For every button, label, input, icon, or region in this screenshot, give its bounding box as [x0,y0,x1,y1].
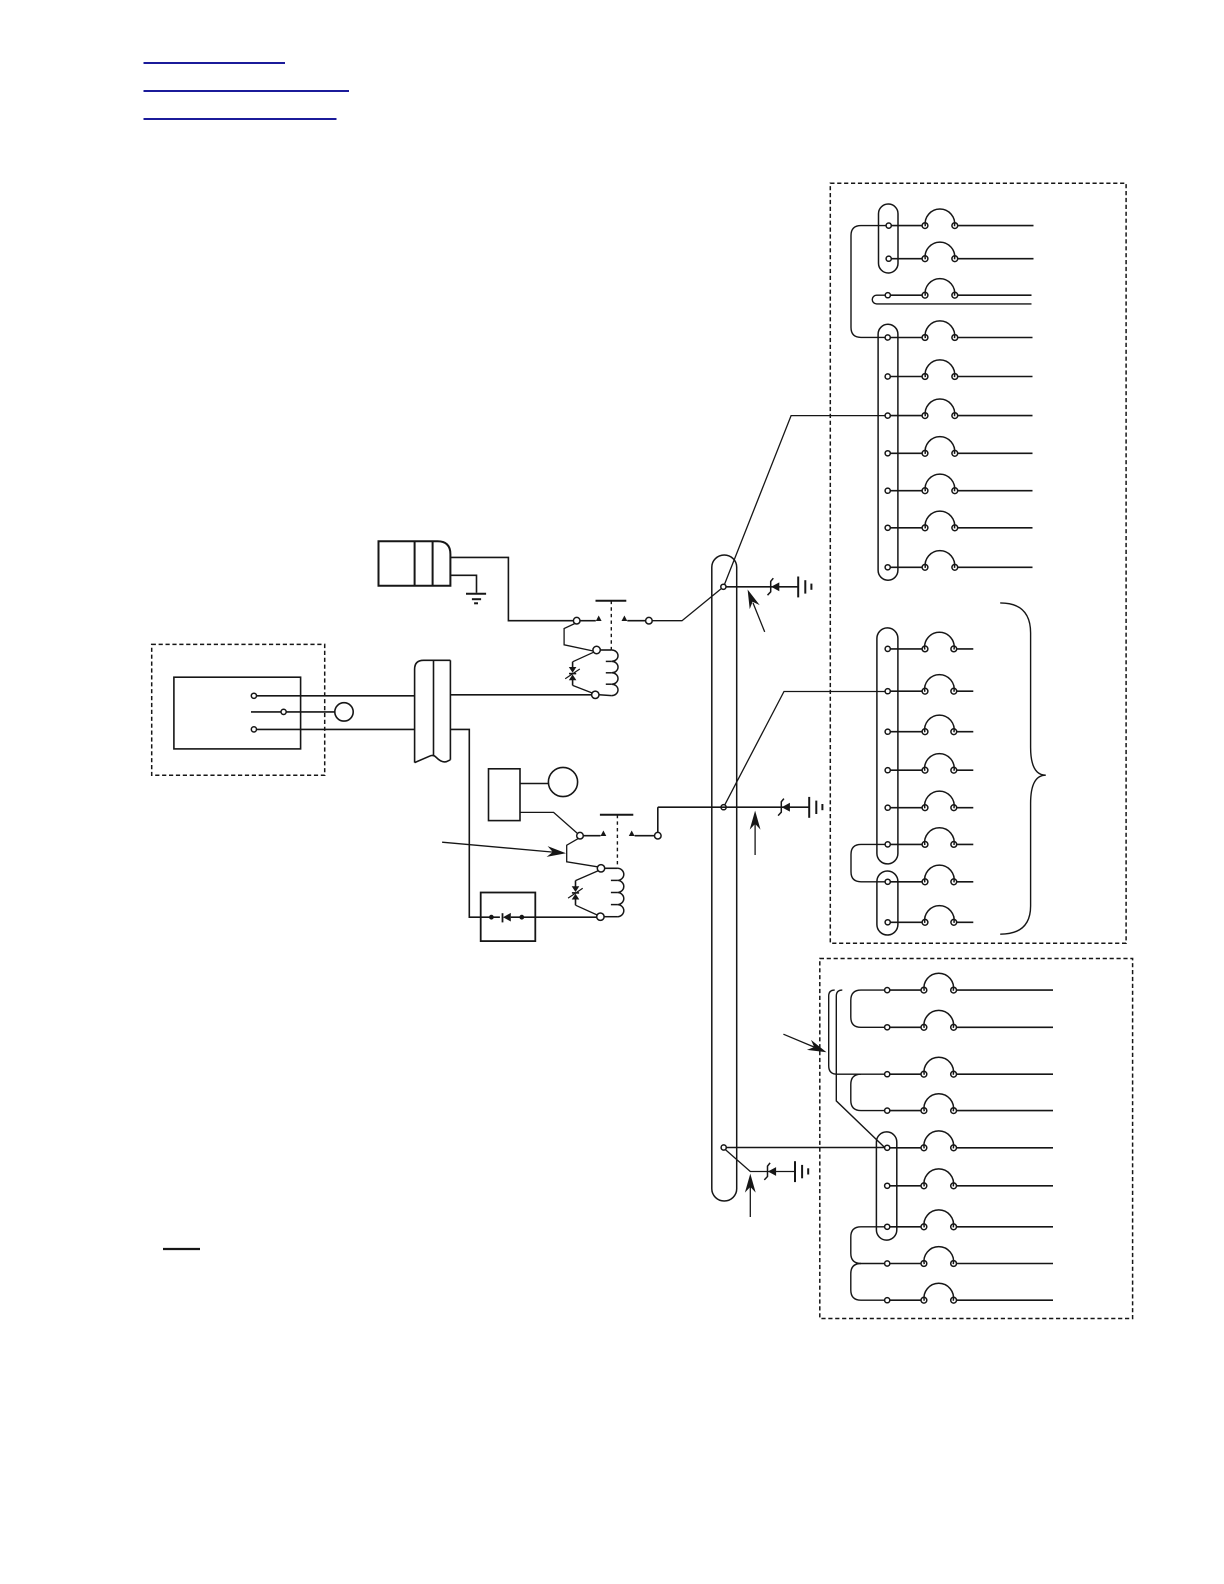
relay K1 contact A2 (right) [622,616,653,625]
jumper panel2 row1 to row2 [851,990,885,1027]
callout arrow (node C) [745,1174,756,1217]
annunciator panel 1 enclosure (dashed) [830,183,1126,943]
lamp row 12 (P3-2) [885,675,973,695]
relay K2 armature link (dashed) [616,815,618,868]
lamp row 14 (P3-4) [885,754,973,774]
wire node C to connector P5 pin 1 [726,1147,884,1149]
lamp row 5 (P2-2) [885,360,1032,380]
lamp row 13 (P3-3) [885,715,973,735]
node A [721,584,726,589]
wire box to relay K2 contact [520,812,577,833]
lamp row 21 (panel 2 row 3) [885,1057,1053,1077]
link underline 2 [144,90,350,92]
wire BT1 positive to relay K1 contact [450,557,573,620]
lamp row 24 (panel 2 row 6) [885,1169,1053,1189]
wire node B to connector P3 pin 2 [725,692,885,805]
callout arrow (relay K2) [442,842,566,857]
diode module CR1 box [481,893,536,942]
relay K2 contact B2 (right) [629,831,661,840]
lamp row 10 (P2-7) [885,551,1032,571]
cable break symbol (wire bundle) [415,660,451,762]
lamp row 20 (panel 2 row 2) [885,1010,1053,1030]
wire box to lamp DS2 [520,783,548,785]
branch wire row1 to connector P5 pin 1 [836,990,885,1148]
relay K2 armature bar [600,814,633,816]
jumper panel2 row3 to row4 [851,1074,885,1110]
wire relay K1 contact A1 to coil [564,624,593,652]
relay K1 armature link (dashed) [610,601,612,650]
relay K1 armature bar [596,600,627,602]
module pin 1 (top) [251,693,414,698]
ground G3 [809,797,822,818]
relay K1 coil L1 [592,646,618,698]
control unit module [174,677,301,749]
lamp row 16 (P3-6) [885,828,973,848]
lamp row 2 (P1-2) [886,242,1033,262]
wire cable break to diode module CR1 [450,729,480,917]
lamp row 7 (P2-4) [885,437,1032,457]
wire node A to connector P2 pin 3 [725,416,885,585]
lamp row 6 (P2-3) [885,399,1032,419]
press-to-test lamp DS2 [548,767,577,796]
lamp row 18 (P4-2) [885,906,973,926]
diode CR4 [764,1163,776,1180]
curly brace (lamp group) [1000,603,1046,934]
wire node B to ground G3 [658,806,809,808]
lamp row 27 (panel 2 row 9) [885,1283,1053,1303]
diode CR1 [481,913,597,923]
battery BT1 [379,541,451,585]
cable bundle (loom) [712,555,737,1201]
wire relay K2 contact B2 to node B [657,807,659,832]
lamp row 11 (P3-1) [885,632,973,652]
callout arrow (node B) [750,811,761,855]
connector P3 [877,628,898,864]
relay K1 contact A1 (left) [573,616,601,625]
module pin 2 (middle) [251,709,335,714]
node C [721,1145,726,1150]
lamp row 3 (loose pin) [872,279,1031,304]
lamp row 25 (panel 2 row 7) [885,1210,1053,1230]
lamp row 17 (P4-1) [885,865,973,885]
callout arrow (node A) [748,590,765,632]
jumper panel2 row8 to row9 [851,1264,885,1301]
wire BT1 negative to ground G1 [450,575,476,593]
lamp row 22 (panel 2 row 4) [885,1094,1053,1114]
lamp row 9 (P2-6) [885,511,1032,531]
dimming control box [489,769,521,821]
node B [721,805,726,810]
relay K2 coil L2 [597,865,624,921]
lamp row 19 (panel 2 row 1) [885,973,1053,993]
link underline 1 [144,62,286,64]
lamp row 26 (panel 2 row 8) [885,1247,1053,1267]
callout arrow (panel 2 wiring) [783,1034,826,1052]
relay K2 contact B1 (left) [577,831,607,840]
branch wire row1 to row3 [829,990,885,1074]
indicator lamp DS1 [335,703,353,721]
wire relay K2 contact B1 to coil [567,839,598,867]
note underline [163,1248,200,1250]
jumper P1-1 to P2-1 [851,226,886,338]
ground G2 [798,577,811,598]
ground G1 [466,594,486,604]
wire node C to ground G4 [725,1150,795,1172]
module pin 3 (bottom) [251,727,414,732]
connector P1 [879,204,899,273]
jumper panel2 row7 to row8 [851,1227,885,1264]
wire node A to ground G2 [726,586,798,588]
jumper P3-6 to P4-1 [851,844,885,881]
link underline 3 [144,118,337,120]
wire relay K1 contact A2 to node A [652,589,721,621]
ground G4 [795,1161,808,1182]
diode CR2 [768,578,780,595]
connector P2 [878,324,898,580]
lamp row 8 (P2-5) [885,474,1032,494]
connector P4 [877,871,898,935]
zener suppressor VR1 [565,652,593,693]
lamp row 15 (P3-5) [885,791,973,811]
lamp row 1 (P1-1) [886,209,1033,229]
annunciator panel 2 enclosure (dashed) [820,959,1133,1319]
lamp row 23 (panel 2 row 5) [885,1131,1053,1151]
wire cable break to relay K1 coil [450,694,591,696]
connector P5 [876,1132,896,1240]
diode CR3 [778,799,790,816]
control unit enclosure (dashed) [152,644,325,775]
lamp row 4 (P2-1) [885,321,1032,341]
zener suppressor VR2 [568,871,598,915]
